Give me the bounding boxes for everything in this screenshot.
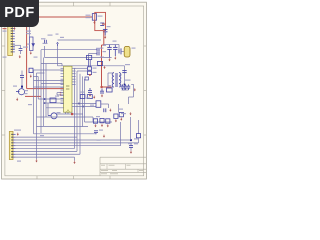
capacitor on pin1	[94, 130, 103, 135]
cap FB2	[100, 89, 104, 98]
connector J2	[9, 132, 15, 160]
crystal Y1	[87, 48, 107, 60]
red net VCC vertical	[26, 25, 28, 89]
border zone ticks	[2, 2, 147, 179]
cap in loop	[98, 16, 111, 28]
power arrow J2	[17, 133, 19, 136]
top rail	[104, 45, 119, 52]
label CE1	[132, 48, 136, 49]
wire H57	[45, 57, 112, 59]
right drop with cap	[129, 138, 138, 154]
vertical feed 130.5	[129, 112, 131, 140]
red AC wire	[39, 16, 93, 18]
red loop component	[95, 12, 106, 30]
wire H117	[37, 117, 94, 122]
sheet outer frame	[2, 2, 147, 179]
wire stub R3	[33, 77, 38, 100]
cap C9	[107, 45, 111, 62]
wire H83	[41, 83, 64, 85]
wire H49	[41, 49, 97, 51]
fuse F1	[92, 14, 96, 21]
junction red	[71, 113, 73, 115]
diode on H65	[98, 61, 106, 69]
wire	[29, 25, 31, 37]
cap FB1	[88, 88, 92, 97]
vertical feed 138.5	[131, 120, 141, 143]
transformer T1	[108, 73, 122, 88]
res row B1	[80, 95, 95, 99]
junction dots left	[44, 98, 46, 104]
wire H65.8	[58, 65, 125, 67]
red HV vertical	[101, 31, 112, 89]
wire H80	[34, 80, 64, 82]
power arrow C8	[104, 36, 106, 39]
wire H103	[44, 102, 64, 104]
cap C10	[113, 45, 117, 60]
junction dots opto wires	[78, 103, 84, 108]
gnd arrow mid	[73, 157, 75, 164]
wire H70	[33, 69, 64, 71]
wire H63	[41, 64, 62, 67]
wire H92	[57, 93, 64, 95]
red wire lower	[25, 95, 41, 97]
power arrow 4	[16, 98, 18, 101]
wire H40	[58, 39, 102, 41]
label J2	[14, 130, 21, 131]
capacitor C5	[20, 71, 24, 89]
transistor Q2	[48, 103, 57, 119]
cap on secondary	[122, 71, 126, 73]
capacitor C8	[103, 29, 108, 35]
power arrow 2	[30, 51, 32, 54]
wire H53	[89, 54, 98, 58]
power arrow F1	[93, 21, 95, 24]
sheet inner frame	[5, 6, 144, 176]
vertical bus left	[41, 50, 46, 133]
label F1	[86, 15, 91, 19]
IC U1	[61, 66, 76, 114]
arrow on bus	[103, 135, 105, 138]
PDF badge	[0, 0, 39, 27]
title block	[100, 157, 146, 176]
label out	[125, 64, 131, 81]
resistor R3	[29, 68, 33, 72]
wire H99	[38, 98, 63, 100]
label smudges upper	[43, 35, 65, 45]
vertical x118	[118, 104, 120, 112]
sheet background	[2, 2, 147, 180]
wire H107	[46, 107, 64, 109]
resistor R5	[41, 34, 59, 47]
wire H126	[37, 126, 89, 128]
power arrow 3	[30, 75, 32, 78]
connector J1	[8, 24, 15, 56]
electrolytic cap CE1	[119, 46, 130, 57]
left bus verticals	[34, 70, 37, 141]
res pair right of U1	[75, 58, 92, 81]
secondary vertical	[122, 66, 125, 90]
caps end H49	[97, 48, 99, 56]
power arrow 1	[19, 55, 21, 58]
gnd arrow left	[35, 141, 37, 163]
bottom bus wires	[16, 122, 131, 157]
power arrow pin	[13, 27, 15, 30]
wire pin J1	[14, 45, 21, 51]
comp row bottom	[85, 112, 124, 127]
wire H133	[34, 133, 97, 135]
bus verticals right of U1	[75, 68, 85, 154]
transistor Q1	[16, 89, 25, 95]
wire H114	[56, 112, 83, 114]
red pin dots U1	[60, 92, 61, 96]
red wire to U1	[27, 88, 64, 90]
res FB3	[107, 88, 113, 92]
wire H73	[37, 72, 45, 74]
capacitor C2	[19, 49, 23, 54]
junction	[21, 86, 23, 88]
vertical feeds	[45, 46, 58, 66]
component small box on 99	[50, 98, 56, 103]
cap at opto	[104, 108, 112, 112]
diode D1 ladder	[26, 31, 35, 51]
wire H87	[34, 86, 64, 88]
optocoupler U2	[76, 101, 109, 108]
labels scattered	[3, 24, 133, 162]
output caps row	[121, 84, 136, 104]
